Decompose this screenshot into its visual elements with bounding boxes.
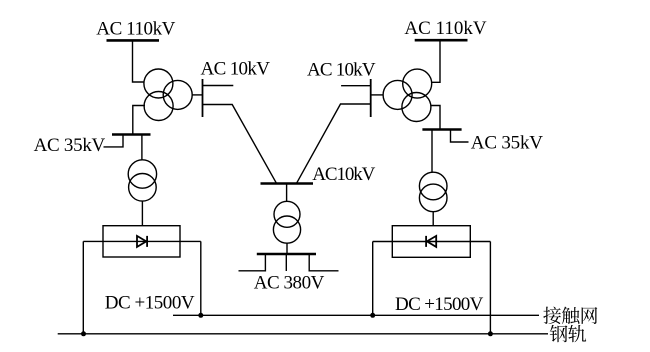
wire: REC1 negative to rail [82,241,84,333]
transformer T1 winding 1 (110kV) [144,69,173,98]
svg-text:AC 110kV: AC 110kV [404,18,486,39]
bus AC10kV right (vertical) [370,79,372,117]
wire: right 110kV bus down to transformer T3 [431,42,440,83]
diode D1 [137,236,147,247]
transformer T2 winding 2 [129,174,157,202]
wire: right 10kV bus to centre 10kV bus [297,104,371,183]
svg-text:AC 35kV: AC 35kV [471,132,543,153]
feeder wire upper from right 10kV bus [341,85,371,87]
transformer T2 winding 1 [128,160,156,188]
wire: centre bus down to transformer T5 [286,184,288,202]
junction dot rail left [81,331,86,336]
bus AC10kV centre [261,182,314,185]
transformer T1 winding 2 (10kV) [163,80,192,109]
bus AC110kV right [415,39,468,42]
transformer T3 winding 3 (35kV) [402,93,431,122]
feeder wire upper from left 10kV bus [203,85,234,87]
feeder left of AC380V bus [239,254,266,271]
bus AC380V [257,253,316,256]
transformer T4 winding 2 [419,184,447,212]
feeder centre of AC380V bus [285,254,287,271]
svg-text:DC +1500V: DC +1500V [395,294,484,315]
rectifier REC2 box [392,226,470,258]
svg-text:AC10kV: AC10kV [312,164,375,185]
transformer T1 winding 3 (35kV) [144,92,173,121]
bus AC35kV left [112,133,151,136]
rectifier REC1 box [103,226,180,257]
diode D2 [426,236,436,247]
wire: left AC35kV bus down to transformer T2 [141,135,143,161]
transformer T5 winding 2 [273,216,300,243]
transformer T4 winding 1 [419,172,447,200]
wire: left 10kV bus to centre 10kV bus [203,105,277,184]
catenary line (contact wire) [173,314,539,316]
wire: T3 35kV winding to right AC35kV bus [431,106,441,130]
label ganggui (rail) [550,325,586,342]
wire: REC2 positive to catenary [372,242,374,316]
svg-text:DC +1500V: DC +1500V [105,292,195,313]
bus AC110kV left [107,39,160,42]
junction dot catenary left [198,313,203,318]
transformer T3 winding 2 (10kV) [383,80,412,109]
transformer T3 winding 1 (110kV) [403,69,432,98]
wire: left 110kV bus down to transformer T1 [133,42,145,83]
wire through rectifier REC2 [373,241,491,243]
wire: right AC35kV bus down to transformer T4 [431,130,433,173]
bus AC10kV left (vertical) [202,79,204,117]
wire: T3 10kV winding to right 10kV bus [371,94,383,96]
wire: T5 to AC380V bus [286,243,288,254]
feeder right of AC380V bus [309,254,338,271]
wire: REC2 negative to rail [489,242,491,334]
bus AC35kV right [422,128,461,131]
junction dot catenary right [370,313,375,318]
svg-text:AC 10kV: AC 10kV [307,60,376,81]
svg-text:AC 110kV: AC 110kV [96,19,175,40]
leader line AC35kV left label [104,134,124,147]
leader line AC35kV right label [451,130,469,142]
wire through rectifier REC1 [83,240,201,242]
wire: T4 to rectifier REC2 [432,212,434,226]
svg-text:AC 35kV: AC 35kV [34,135,106,156]
junction dot rail right [488,331,493,336]
wire: T1 10kV winding to left 10kV bus [192,94,202,96]
svg-text:AC 10kV: AC 10kV [201,59,271,80]
rail line [58,333,548,335]
wire: T2 to rectifier REC1 [141,201,143,226]
svg-text:AC 380V: AC 380V [254,273,325,294]
wire: REC1 positive to catenary [200,241,202,315]
transformer T5 winding 1 [274,201,300,227]
wire: T1 35kV winding to AC35kV bus [133,106,145,135]
label jiechuwang (catenary) [543,307,597,324]
